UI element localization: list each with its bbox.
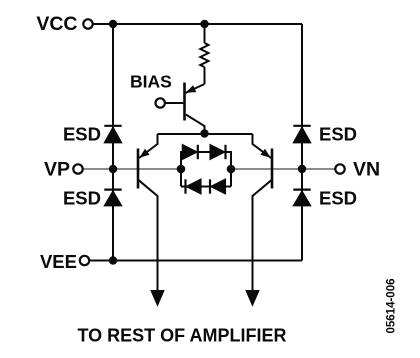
ESD diode D5 (upper left) bbox=[104, 125, 121, 127]
transistor Q3 emitter lead bbox=[253, 134, 272, 158]
svg-text:TO REST OF AMPLIFIER: TO REST OF AMPLIFIER bbox=[78, 325, 287, 345]
transistor Q2 emitter arrow bbox=[139, 149, 149, 158]
svg-text:05614-006: 05614-006 bbox=[386, 279, 398, 334]
ESD diode D8 (lower right) bbox=[293, 189, 310, 191]
transistor Q1 emitter arrow bbox=[186, 85, 197, 93]
terminal circle BIAS bbox=[156, 98, 165, 107]
ESD diode D7 (upper right) bbox=[293, 125, 310, 127]
junction dot clamp left node bbox=[177, 165, 186, 174]
diode D4 (clamp bottom right, pointing left) bbox=[211, 179, 225, 193]
arrow to rest of amplifier (left) bbox=[151, 291, 164, 306]
terminal circle VEE bbox=[80, 256, 89, 265]
arrow to rest of amplifier (right) bbox=[246, 291, 259, 306]
transistor Q1 emitter lead bbox=[186, 84, 205, 93]
wire clamp network top branch bbox=[181, 152, 231, 169]
wire VP input line to left transistor base and clamp node bbox=[83, 168, 181, 170]
wire clamp network bottom branch bbox=[181, 169, 231, 187]
resistor R1 (bias resistor from VCC) bbox=[200, 43, 208, 67]
junction dot on VCC rail at resistor bbox=[200, 20, 208, 28]
junction dot tail node bbox=[200, 129, 208, 137]
wire VEE bottom rail bbox=[89, 260, 302, 262]
svg-text:ESD: ESD bbox=[319, 124, 357, 145]
terminal circle VCC bbox=[83, 19, 92, 28]
svg-text:ESD: ESD bbox=[319, 188, 357, 209]
wire VN input line to right transistor base and clamp node bbox=[231, 168, 335, 170]
junction dot VEE at left rail bbox=[109, 256, 117, 264]
svg-text:VN: VN bbox=[353, 158, 380, 180]
wire VCC rail to resistor R1 bbox=[204, 24, 206, 43]
wire tail line joining input pair emitters bbox=[158, 133, 253, 135]
wire VCC top rail bbox=[93, 23, 302, 25]
junction dot VP at left rail bbox=[109, 165, 117, 173]
svg-text:ESD: ESD bbox=[63, 188, 101, 209]
transistor Q2 emitter lead bbox=[139, 134, 158, 158]
diode D2 (clamp top right, pointing right) bbox=[210, 145, 224, 159]
junction dot VN at right rail bbox=[298, 165, 306, 173]
diode D1 (clamp top left, pointing right) bbox=[183, 145, 197, 159]
wire resistor R1 to Q1 emitter bbox=[204, 67, 206, 84]
diode D3 (clamp bottom left, pointing left) bbox=[187, 179, 201, 193]
transistor Q3 (right PNP input) base bar bbox=[271, 149, 274, 189]
transistor Q2 (left PNP input) base bar bbox=[137, 149, 140, 189]
wire right rail (VCC to VEE through ESD diodes) bbox=[301, 24, 303, 261]
svg-text:VP: VP bbox=[44, 158, 70, 180]
transistor Q3 emitter arrow bbox=[260, 149, 270, 158]
wire BIAS base lead bbox=[165, 102, 183, 104]
terminal circle VN bbox=[335, 164, 344, 173]
wire left rail (VCC to VEE through ESD diodes) bbox=[112, 24, 114, 261]
transistor Q2 collector lead bbox=[139, 180, 158, 291]
junction dot clamp right node bbox=[227, 165, 236, 174]
transistor Q3 collector lead bbox=[253, 180, 272, 291]
transistor Q1 BIAS (PNP) base bar bbox=[183, 83, 186, 121]
transistor Q1 collector lead to tail node bbox=[186, 115, 205, 134]
ESD diode D6 (lower left) bbox=[104, 189, 121, 191]
junction dot on VCC rail at left rail bbox=[109, 20, 117, 28]
svg-text:VEE: VEE bbox=[40, 251, 77, 272]
terminal circle VP bbox=[73, 164, 82, 173]
svg-text:BIAS: BIAS bbox=[130, 72, 172, 92]
svg-text:VCC: VCC bbox=[36, 13, 77, 35]
svg-text:ESD: ESD bbox=[63, 124, 101, 145]
